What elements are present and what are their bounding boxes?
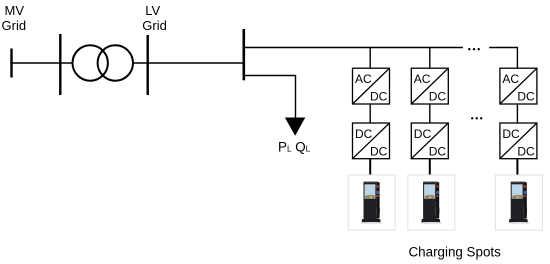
wire U1 to U4 xyxy=(369,104,371,123)
svg-text:Charging Spots: Charging Spots xyxy=(409,245,502,260)
svg-text:Grid: Grid xyxy=(2,18,27,33)
label Charging Spots xyxy=(409,245,502,260)
wire U6 to charging spot 3 xyxy=(516,159,518,182)
wire drop 2 xyxy=(429,48,431,69)
svg-text:DC: DC xyxy=(429,90,447,104)
wire load branch xyxy=(244,76,296,120)
converter AC/DC U1 xyxy=(353,68,390,104)
ellipsis feeder continuation xyxy=(468,48,480,50)
svg-text:MV: MV xyxy=(5,3,25,18)
converter AC/DC U2 xyxy=(411,68,448,104)
svg-text:Grid: Grid xyxy=(142,18,167,33)
svg-text:DC: DC xyxy=(502,127,520,141)
svg-text:AC: AC xyxy=(414,72,431,86)
wire U3 to U6 xyxy=(516,104,518,123)
svg-text:DC: DC xyxy=(370,144,388,158)
wire drop 1 xyxy=(369,48,371,69)
bus station (collector) xyxy=(243,29,246,80)
ellipsis converter row continuation xyxy=(471,117,482,119)
wire feeder far segment with drop to converter 3 xyxy=(489,48,517,69)
wire U2 to U5 xyxy=(429,104,431,123)
label PL QL xyxy=(278,140,311,155)
charging spot 2 xyxy=(408,175,455,230)
MV grid terminal bar xyxy=(10,49,12,78)
transformer T1 xyxy=(73,45,134,80)
charging spot 1 xyxy=(348,175,395,230)
wire main MV-LV line xyxy=(10,62,244,64)
svg-text:AC: AC xyxy=(355,72,372,86)
svg-text:DC: DC xyxy=(355,127,373,141)
converter DC/DC U4 xyxy=(353,123,390,159)
svg-text:DC: DC xyxy=(414,127,432,141)
label MV Grid xyxy=(2,3,27,33)
svg-text:DC: DC xyxy=(517,90,535,104)
charging spot 3 xyxy=(495,175,542,230)
bus LV xyxy=(146,35,148,95)
converter AC/DC U3 xyxy=(500,68,537,104)
wire U5 to charging spot 2 xyxy=(429,159,431,182)
wire feeder xyxy=(244,47,463,49)
converter DC/DC U6 xyxy=(500,123,537,159)
svg-text:DC: DC xyxy=(429,144,447,158)
load arrow xyxy=(285,118,305,136)
svg-text:DC: DC xyxy=(370,90,388,104)
bus MV xyxy=(59,34,61,95)
wire U4 to charging spot 1 xyxy=(369,159,371,182)
label LV Grid xyxy=(142,3,167,33)
svg-text:LV: LV xyxy=(145,3,160,18)
svg-text:DC: DC xyxy=(517,144,535,158)
svg-text:AC: AC xyxy=(502,72,519,86)
converter DC/DC U5 xyxy=(411,123,448,159)
